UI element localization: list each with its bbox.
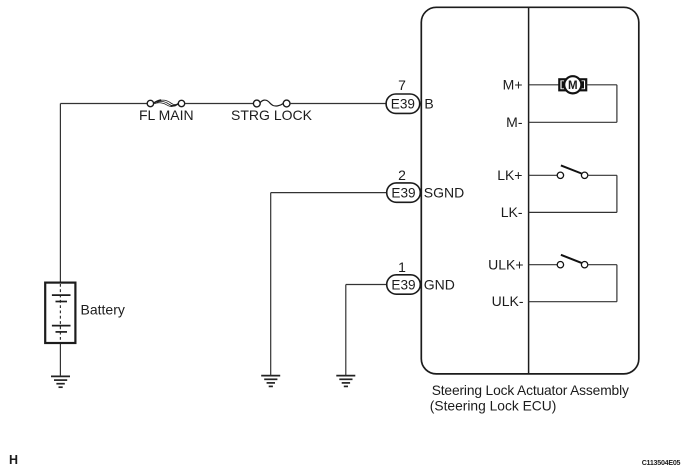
battery B1 [45, 283, 75, 343]
switch LK [557, 165, 588, 178]
svg-text:GND: GND [424, 276, 455, 292]
wire FL MAIN to STRG LOCK [185, 103, 254, 105]
fuse STRG LOCK [253, 100, 290, 107]
svg-text:Steering Lock Actuator Assembl: Steering Lock Actuator Assembly [432, 383, 629, 398]
svg-text:(Steering Lock ECU): (Steering Lock ECU) [430, 398, 557, 413]
switch ULK [557, 255, 588, 268]
wire M+ [529, 84, 560, 86]
wire ULK- [529, 301, 617, 303]
svg-text:M-: M- [506, 114, 523, 130]
svg-text:LK+: LK+ [497, 167, 522, 183]
ground (GND wire) [336, 376, 355, 387]
svg-text:SGND: SGND [424, 185, 464, 201]
wire GND vertical to ground [345, 285, 347, 376]
svg-text:2: 2 [398, 167, 406, 183]
wire ULK loop right vertical [616, 265, 618, 302]
svg-text:LK-: LK- [501, 204, 523, 220]
svg-text:1: 1 [398, 259, 406, 275]
wire M- [529, 121, 617, 123]
wire motor loop right vertical [616, 85, 618, 123]
svg-text:C113504E05: C113504E05 [642, 459, 681, 467]
wire ULK+ [529, 264, 558, 266]
ECU box Steering Lock Actuator Assembly [421, 7, 639, 374]
wire LK- [529, 211, 617, 213]
wire SGND horizontal [271, 192, 387, 194]
wire battery-top vertical [59, 104, 61, 284]
svg-text:STRG LOCK: STRG LOCK [231, 107, 313, 123]
svg-text:ULK-: ULK- [492, 293, 524, 309]
motor M [559, 76, 586, 93]
svg-text:E39: E39 [391, 277, 415, 292]
ECU divider line [528, 7, 530, 374]
svg-text:E39: E39 [391, 97, 415, 112]
wire LK switch to right [588, 174, 617, 176]
fusible link FL MAIN [147, 100, 185, 107]
svg-text:7: 7 [398, 77, 406, 93]
svg-text:B: B [424, 96, 433, 112]
wire GND horizontal [346, 284, 387, 286]
svg-text:FL MAIN: FL MAIN [139, 107, 194, 123]
connector E39 pin 7 [386, 94, 420, 113]
wire LK loop right vertical [616, 175, 618, 212]
wire battery-bottom to ground [59, 343, 61, 377]
svg-text:M: M [568, 80, 578, 92]
svg-text:E39: E39 [391, 186, 415, 201]
connector E39 pin 1 [387, 275, 421, 294]
wire LK+ [529, 174, 558, 176]
ground (battery) [51, 376, 70, 387]
svg-text:H: H [9, 453, 18, 467]
svg-text:ULK+: ULK+ [488, 257, 523, 273]
svg-text:Battery: Battery [81, 302, 125, 318]
ground (SGND wire) [261, 376, 280, 387]
connector E39 pin 2 [387, 183, 421, 202]
wire STRG LOCK to connector pin 7 [290, 103, 386, 105]
wire top horizontal (battery to FL MAIN) [60, 103, 147, 105]
wire motor to right [586, 84, 617, 86]
wire ULK switch to right [588, 264, 617, 266]
wire SGND vertical to ground [270, 193, 272, 376]
svg-text:M+: M+ [503, 76, 523, 92]
